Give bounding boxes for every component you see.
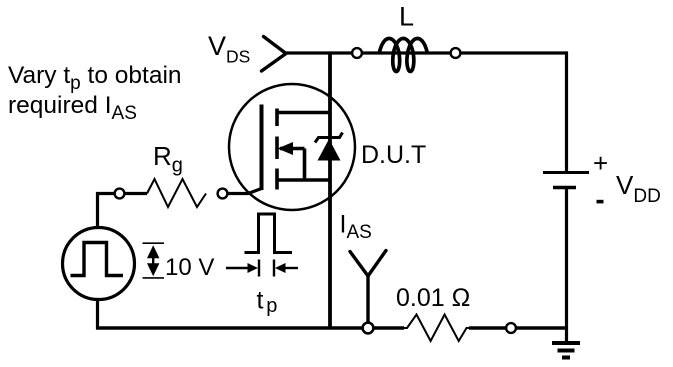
battery VDD minus plate (553, 186, 576, 189)
terminal circle right of 0.01 ohm (506, 323, 516, 333)
wire pulse gen bottom (96, 298, 99, 330)
terminal circle left of L (352, 48, 362, 58)
terminal circle right of Rg (218, 189, 228, 199)
10V measurement ticks (143, 243, 165, 278)
mosfet channel dashes (275, 109, 279, 190)
10V double arrow (147, 245, 159, 276)
wire to gate (228, 189, 262, 194)
terminal circle left of Rg (115, 189, 125, 199)
resistor Rg (147, 179, 206, 207)
wire top rail (285, 51, 567, 54)
wire bottom rail (96, 326, 567, 330)
pulse generator source (63, 228, 135, 300)
inductor L (380, 39, 428, 72)
node junction circle (IAS node) (363, 323, 374, 334)
svg-text:0.01 Ω: 0.01 Ω (396, 284, 470, 312)
ground (552, 343, 580, 358)
tp arrows (226, 260, 298, 277)
DUT circle (229, 84, 355, 210)
mosfet Q1 gate bar (260, 105, 264, 191)
svg-text:+: + (593, 148, 608, 178)
svg-text:10 V: 10 V (165, 254, 214, 281)
svg-text:D.U.T: D.U.T (361, 141, 426, 169)
wire to Rg (125, 192, 148, 195)
IAS arrow (350, 251, 386, 323)
svg-text:L: L (399, 2, 414, 32)
mosfet body arrow (278, 142, 305, 180)
battery VDD plus plate (543, 171, 589, 174)
tp pulse waveform (245, 214, 293, 253)
label minus (597, 200, 604, 204)
wire left vertical (pulse gen to gate wire) (98, 194, 121, 230)
body diode (avalanche) of DUT (315, 133, 343, 161)
VDS probe arrow (262, 37, 287, 72)
wire main vertical drain-source rail (328, 53, 332, 330)
wire right rail lower (565, 188, 568, 344)
text note "Vary tp to obtain required IAS" (8, 62, 182, 124)
pulse symbol inside generator (71, 243, 124, 276)
resistor 0.01 ohm (404, 312, 469, 344)
wire right rail upper (565, 51, 568, 171)
mosfet source stub (276, 178, 331, 182)
mosfet drain stub (276, 111, 331, 115)
terminal circle right of L (451, 48, 461, 58)
